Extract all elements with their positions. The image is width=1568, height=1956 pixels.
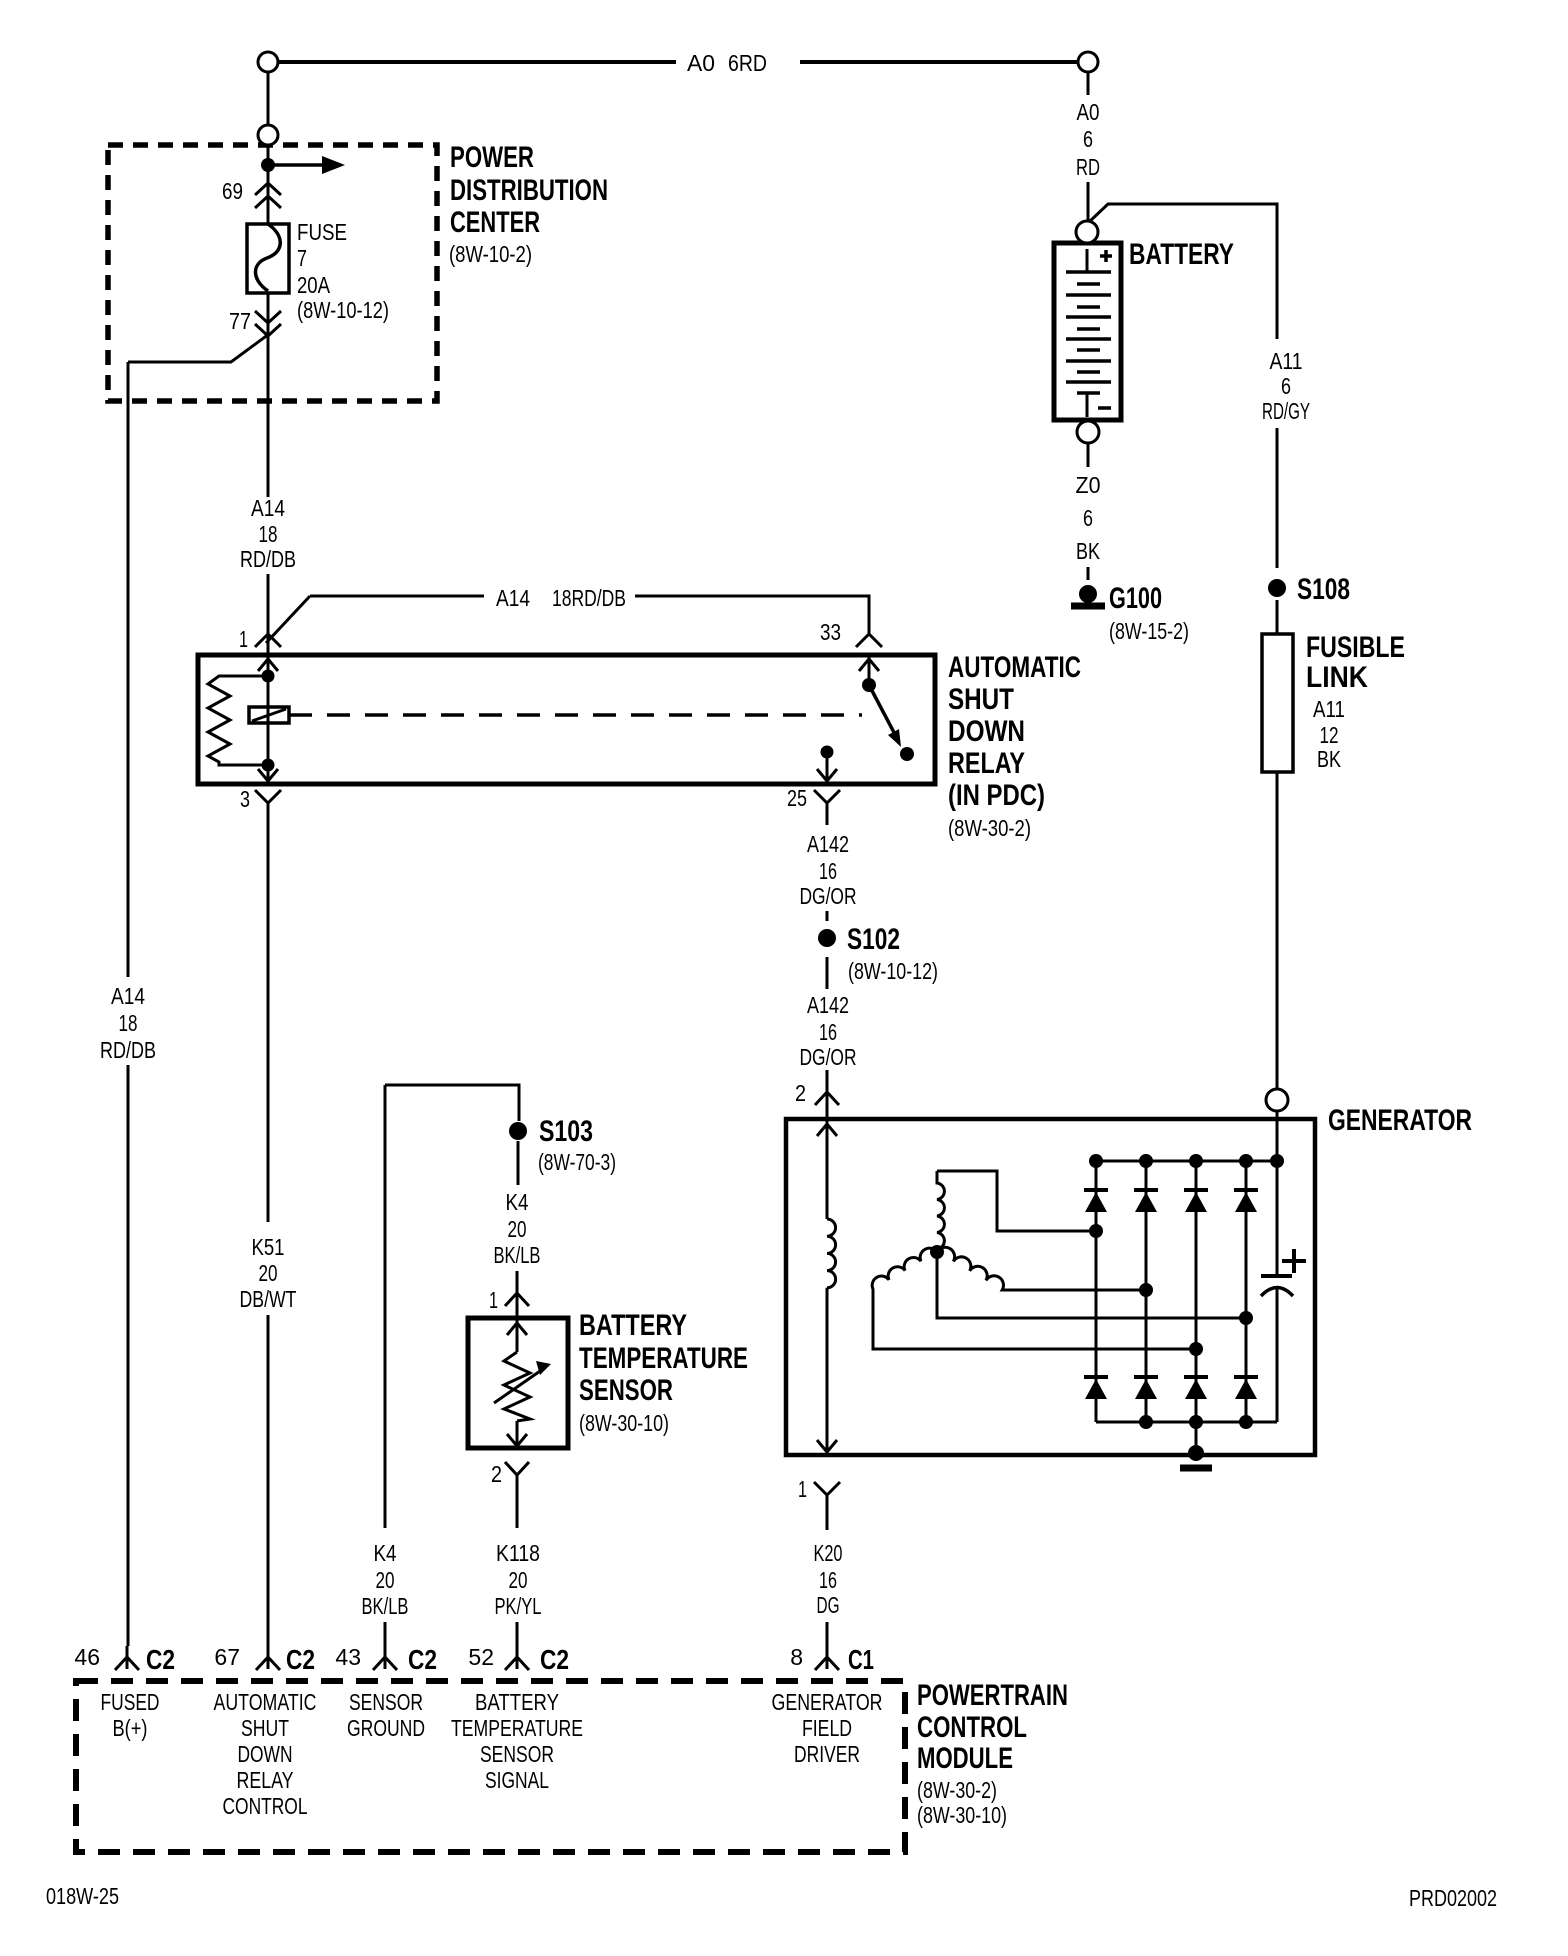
svg-text:8: 8 bbox=[790, 1644, 803, 1670]
wire A14 branch diagonal bbox=[266, 596, 310, 643]
svg-text:RELAY: RELAY bbox=[948, 747, 1025, 780]
svg-text:2: 2 bbox=[795, 1080, 806, 1106]
capacitor plus sign bbox=[1282, 1249, 1306, 1273]
svg-text:43: 43 bbox=[335, 1644, 361, 1670]
sensor internal top arrow bbox=[516, 1320, 519, 1352]
svg-text:PK/YL: PK/YL bbox=[495, 1593, 542, 1619]
svg-text:77: 77 bbox=[229, 308, 251, 334]
svg-text:18RD/DB: 18RD/DB bbox=[552, 585, 626, 611]
automatic shut down relay box bbox=[198, 655, 935, 784]
connector circle right on A0 wire bbox=[1078, 52, 1098, 72]
svg-text:3: 3 bbox=[240, 786, 250, 812]
stator phase tap dots bbox=[1089, 1224, 1103, 1238]
svg-text:BK: BK bbox=[1076, 538, 1101, 564]
svg-text:18: 18 bbox=[259, 521, 278, 547]
relay pin 33 chevron bbox=[856, 634, 882, 647]
diode bridge top bus bbox=[1096, 1160, 1277, 1163]
svg-text:BATTERY: BATTERY bbox=[1129, 238, 1234, 271]
svg-text:DG: DG bbox=[817, 1592, 840, 1618]
powertrain control module dashed box bbox=[76, 1681, 905, 1852]
svg-text:(8W-30-2): (8W-30-2) bbox=[948, 815, 1031, 841]
relay coil resistor bbox=[208, 676, 268, 765]
svg-text:6RD: 6RD bbox=[728, 50, 767, 76]
wire K4 left vertical upper bbox=[384, 1085, 387, 1528]
svg-text:GENERATOR: GENERATOR bbox=[772, 1689, 883, 1715]
diode bridge junction dots bottom bus bbox=[1139, 1415, 1153, 1429]
svg-text:POWER: POWER bbox=[450, 141, 534, 174]
svg-text:(8W-10-2): (8W-10-2) bbox=[449, 241, 532, 267]
wire to sensor pin 1 bbox=[516, 1271, 519, 1293]
wire below S102 bbox=[826, 957, 829, 989]
generator pin 1 internal arrow bbox=[817, 1440, 837, 1452]
relay pin 1 chevron bbox=[255, 634, 281, 647]
PCM pin 8 C1 chevron bbox=[815, 1646, 839, 1670]
svg-text:C2: C2 bbox=[146, 1644, 175, 1675]
relay coil symbol box bbox=[249, 707, 289, 723]
rectifier diode column 2 bbox=[1145, 1161, 1148, 1422]
svg-text:C1: C1 bbox=[848, 1644, 874, 1675]
wire A14 left upper segment bbox=[127, 362, 130, 977]
wire circle to circle bbox=[267, 73, 270, 124]
wire K20 lower segment bbox=[826, 1622, 829, 1646]
battery cell plates bbox=[1066, 270, 1111, 274]
wire fuse to switch node bbox=[267, 293, 270, 340]
sensor pin 1 chevron bbox=[505, 1293, 529, 1318]
svg-text:CENTER: CENTER bbox=[450, 206, 540, 239]
wire stub above S102 bbox=[826, 911, 829, 921]
svg-text:(8W-10-12): (8W-10-12) bbox=[848, 958, 938, 984]
svg-text:S108: S108 bbox=[1297, 573, 1350, 606]
svg-text:GROUND: GROUND bbox=[347, 1715, 425, 1741]
wire A14 center lower segment bbox=[267, 574, 270, 657]
svg-text:DRIVER: DRIVER bbox=[794, 1741, 860, 1767]
svg-text:BATTERY: BATTERY bbox=[475, 1689, 559, 1715]
relay switch blade bbox=[869, 685, 899, 742]
svg-text:CONTROL: CONTROL bbox=[223, 1793, 308, 1819]
arrow to other circuits bbox=[268, 163, 322, 167]
PCM pin 52 C2 chevron bbox=[505, 1646, 529, 1670]
svg-text:DOWN: DOWN bbox=[948, 715, 1025, 748]
svg-text:A11: A11 bbox=[1313, 696, 1345, 722]
svg-text:FUSE: FUSE bbox=[297, 219, 347, 245]
svg-text:RD/DB: RD/DB bbox=[100, 1037, 156, 1063]
svg-text:20: 20 bbox=[508, 1216, 527, 1242]
wire below S103 bbox=[517, 1141, 520, 1185]
wire K51 lower segment bbox=[267, 1315, 270, 1646]
wire K20 upper segment bbox=[826, 1512, 829, 1530]
svg-text:(8W-15-2): (8W-15-2) bbox=[1109, 618, 1189, 644]
splice S102 dot bbox=[818, 929, 836, 947]
generator rotor field wire upper bbox=[826, 1140, 829, 1219]
battery box bbox=[1054, 243, 1121, 420]
svg-text:C2: C2 bbox=[286, 1644, 315, 1675]
rectifier diode column 1 bbox=[1095, 1161, 1098, 1422]
svg-text:FUSED: FUSED bbox=[101, 1689, 160, 1715]
svg-text:LINK: LINK bbox=[1306, 661, 1368, 694]
svg-text:20: 20 bbox=[259, 1260, 278, 1286]
battery internal stem top bbox=[1086, 249, 1089, 272]
fusible link box bbox=[1262, 634, 1293, 772]
diode bridge bottom bus bbox=[1096, 1421, 1277, 1424]
svg-text:A14: A14 bbox=[496, 585, 530, 611]
svg-text:GENERATOR: GENERATOR bbox=[1328, 1104, 1472, 1137]
suppression capacitor bbox=[1261, 1274, 1292, 1278]
rectifier diode column 3 bbox=[1195, 1161, 1198, 1422]
svg-text:AUTOMATIC: AUTOMATIC bbox=[948, 651, 1081, 684]
wire Z0 lower segment bbox=[1087, 567, 1090, 580]
PCM pin 43 C2 chevron bbox=[373, 1646, 397, 1670]
svg-text:DB/WT: DB/WT bbox=[240, 1286, 297, 1312]
wire A0 to battery upper segment bbox=[1087, 73, 1090, 223]
svg-text:25: 25 bbox=[787, 785, 807, 811]
wire A0 6RD left segment bbox=[279, 60, 676, 64]
svg-text:DG/OR: DG/OR bbox=[800, 1044, 857, 1070]
svg-text:BK/LB: BK/LB bbox=[494, 1242, 541, 1268]
generator pin 1 chevron bbox=[814, 1482, 840, 1512]
pin 77 double chevron bbox=[255, 311, 281, 323]
svg-text:12: 12 bbox=[1320, 722, 1339, 748]
svg-text:BATTERY: BATTERY bbox=[579, 1309, 687, 1342]
svg-text:33: 33 bbox=[820, 619, 841, 645]
wire into PDC bbox=[267, 146, 270, 224]
svg-text:BK/LB: BK/LB bbox=[362, 1593, 409, 1619]
svg-text:7: 7 bbox=[297, 245, 307, 271]
svg-text:FUSIBLE: FUSIBLE bbox=[1306, 631, 1405, 664]
relay pin 1 internal arrow bbox=[267, 657, 270, 676]
svg-text:(8W-10-12): (8W-10-12) bbox=[297, 297, 389, 323]
svg-text:A14: A14 bbox=[251, 495, 285, 521]
svg-text:A14: A14 bbox=[111, 983, 145, 1009]
diode bridge junction dots top bus bbox=[1089, 1154, 1103, 1168]
sensor pin 2 chevron bbox=[505, 1462, 529, 1492]
connector circle at PDC entry bbox=[258, 125, 278, 145]
PCM pin 46 C2 chevron bbox=[115, 1646, 139, 1670]
splice S103 dot bbox=[509, 1122, 527, 1140]
svg-text:A142: A142 bbox=[807, 831, 849, 857]
generator pin 2 internal arrow bbox=[826, 1121, 829, 1140]
svg-text:(8W-70-3): (8W-70-3) bbox=[538, 1149, 616, 1175]
svg-text:K20: K20 bbox=[814, 1540, 843, 1566]
svg-text:AUTOMATIC: AUTOMATIC bbox=[214, 1689, 317, 1715]
svg-text:K4: K4 bbox=[374, 1540, 397, 1566]
splice S108 dot bbox=[1268, 579, 1286, 597]
ground G100 bbox=[1079, 585, 1097, 603]
svg-text:A0: A0 bbox=[1077, 99, 1100, 125]
svg-text:SENSOR: SENSOR bbox=[480, 1741, 554, 1767]
svg-text:A142: A142 bbox=[807, 992, 849, 1018]
wire A14 18RD/DB branch left segment bbox=[310, 595, 484, 598]
battery minus sign bbox=[1098, 406, 1111, 410]
svg-text:DOWN: DOWN bbox=[238, 1741, 293, 1767]
rectifier diode column 4 bbox=[1245, 1161, 1248, 1422]
svg-text:SHUT: SHUT bbox=[241, 1715, 289, 1741]
wire A14 center upper segment bbox=[267, 340, 270, 497]
wire A0 6RD right segment bbox=[800, 60, 1078, 64]
svg-text:46: 46 bbox=[74, 1644, 100, 1670]
svg-text:TEMPERATURE: TEMPERATURE bbox=[579, 1342, 748, 1375]
relay pin 25 internal dot and arrow bbox=[821, 746, 834, 759]
svg-text:CONTROL: CONTROL bbox=[917, 1711, 1027, 1744]
svg-text:RD: RD bbox=[1076, 154, 1100, 180]
svg-text:6: 6 bbox=[1083, 126, 1093, 152]
svg-text:K51: K51 bbox=[252, 1234, 285, 1260]
svg-text:RELAY: RELAY bbox=[237, 1767, 294, 1793]
stator feed L wire to diode column 1 bbox=[937, 1171, 1089, 1231]
svg-text:DG/OR: DG/OR bbox=[800, 883, 857, 909]
svg-text:K4: K4 bbox=[506, 1189, 529, 1215]
battery plus sign bbox=[1100, 250, 1112, 262]
relay pin 3 internal arrow bbox=[267, 765, 270, 781]
stator winding leg 1 bbox=[937, 1171, 944, 1252]
generator output terminal circle bbox=[1266, 1089, 1288, 1111]
svg-text:SENSOR: SENSOR bbox=[349, 1689, 423, 1715]
svg-text:6: 6 bbox=[1083, 505, 1093, 531]
relay switch fixed contact dot bbox=[862, 678, 876, 692]
battery negative terminal circle bbox=[1077, 421, 1099, 443]
svg-text:(8W-30-10): (8W-30-10) bbox=[579, 1410, 669, 1436]
svg-text:67: 67 bbox=[214, 1644, 240, 1670]
relay coil top junction dot bbox=[262, 670, 275, 683]
svg-text:Z0: Z0 bbox=[1076, 472, 1101, 498]
generator box bbox=[786, 1119, 1315, 1455]
svg-text:BK: BK bbox=[1317, 746, 1342, 772]
power distribution center dashed box bbox=[108, 145, 437, 401]
svg-text:C2: C2 bbox=[408, 1644, 437, 1675]
wire A14 18RD/DB branch right segment bbox=[635, 596, 869, 634]
svg-text:(8W-30-10): (8W-30-10) bbox=[917, 1802, 1007, 1828]
svg-text:SIGNAL: SIGNAL bbox=[485, 1767, 549, 1793]
wire battery positive branch bbox=[1088, 204, 1277, 339]
svg-text:B(+): B(+) bbox=[113, 1715, 148, 1741]
sensor variable arrow bbox=[494, 1369, 543, 1403]
svg-text:(IN PDC): (IN PDC) bbox=[948, 779, 1045, 812]
svg-text:POWERTRAIN: POWERTRAIN bbox=[917, 1679, 1068, 1712]
generator pin 2 chevron bbox=[815, 1092, 839, 1119]
relay switch moving contact dot bbox=[900, 747, 914, 761]
sensor thermistor zigzag bbox=[504, 1352, 530, 1421]
svg-text:SHUT: SHUT bbox=[948, 683, 1014, 716]
relay actuation dashed link bbox=[289, 713, 862, 717]
relay pin 3 chevron bbox=[255, 790, 281, 815]
battery internal stem bottom bbox=[1086, 393, 1089, 417]
svg-text:MODULE: MODULE bbox=[917, 1742, 1013, 1775]
svg-text:69: 69 bbox=[222, 178, 243, 204]
svg-text:2: 2 bbox=[491, 1461, 502, 1487]
relay pin 33 internal arrow bbox=[868, 657, 871, 685]
svg-text:DISTRIBUTION: DISTRIBUTION bbox=[450, 174, 608, 207]
svg-text:FIELD: FIELD bbox=[802, 1715, 852, 1741]
svg-text:18: 18 bbox=[119, 1010, 138, 1036]
svg-text:6: 6 bbox=[1281, 373, 1291, 399]
sensor internal bottom arrow bbox=[516, 1421, 519, 1446]
svg-text:SENSOR: SENSOR bbox=[579, 1374, 673, 1407]
svg-text:RD/DB: RD/DB bbox=[240, 546, 296, 572]
battery positive terminal circle bbox=[1076, 221, 1098, 243]
svg-text:S102: S102 bbox=[847, 923, 900, 956]
junction dot with arrow bbox=[261, 158, 275, 172]
svg-text:018W-25: 018W-25 bbox=[46, 1883, 119, 1909]
svg-text:PRD02002: PRD02002 bbox=[1409, 1885, 1497, 1911]
svg-text:K118: K118 bbox=[496, 1540, 540, 1566]
wire K51 upper segment bbox=[267, 815, 270, 1222]
svg-text:TEMPERATURE: TEMPERATURE bbox=[451, 1715, 583, 1741]
svg-text:A11: A11 bbox=[1270, 348, 1303, 374]
connector circle left on A0 wire bbox=[258, 52, 278, 72]
svg-text:20A: 20A bbox=[297, 272, 331, 298]
svg-text:16: 16 bbox=[819, 1567, 837, 1593]
svg-text:1: 1 bbox=[489, 1287, 498, 1313]
wire S108 to fusible link bbox=[1276, 600, 1279, 634]
svg-text:1: 1 bbox=[798, 1476, 807, 1502]
svg-text:52: 52 bbox=[468, 1644, 494, 1670]
svg-text:20: 20 bbox=[509, 1567, 528, 1593]
svg-text:S103: S103 bbox=[539, 1115, 593, 1148]
svg-text:A0: A0 bbox=[687, 50, 715, 76]
svg-text:C2: C2 bbox=[540, 1644, 569, 1675]
wire to generator pin 2 bbox=[826, 1070, 829, 1092]
stator star junction dot bbox=[930, 1245, 944, 1259]
generator internal ground bbox=[1195, 1422, 1198, 1452]
stator center tap wire bbox=[937, 1252, 1246, 1318]
svg-text:RD/GY: RD/GY bbox=[1262, 398, 1310, 424]
svg-text:1: 1 bbox=[239, 626, 248, 652]
wire K118 upper segment bbox=[516, 1492, 519, 1528]
battery temperature sensor box bbox=[468, 1318, 568, 1448]
relay switch blade in PDC bbox=[128, 334, 269, 362]
svg-text:(8W-30-2): (8W-30-2) bbox=[917, 1777, 997, 1803]
PCM pin 67 C2 chevron bbox=[256, 1646, 280, 1670]
svg-text:16: 16 bbox=[819, 1019, 837, 1045]
wire K4 left lower segment bbox=[384, 1622, 387, 1646]
generator rotor field coil bbox=[827, 1219, 836, 1288]
wire Z0 upper segment bbox=[1087, 443, 1090, 467]
svg-text:16: 16 bbox=[819, 858, 837, 884]
relay coil vertical wire bbox=[267, 676, 270, 765]
relay pin 25 chevron bbox=[814, 790, 840, 825]
generator output wire with capacitor bbox=[1276, 1111, 1279, 1422]
stator winding leg 2 bbox=[872, 1248, 1196, 1349]
wire A14 left lower segment bbox=[127, 1065, 130, 1646]
svg-text:20: 20 bbox=[376, 1567, 395, 1593]
svg-text:G100: G100 bbox=[1109, 582, 1162, 615]
wire A11 middle segment bbox=[1276, 428, 1279, 568]
wire K118 lower segment bbox=[516, 1622, 519, 1646]
relay coil bottom junction dot bbox=[262, 759, 275, 772]
generator rotor field wire lower bbox=[826, 1288, 829, 1453]
pin 69 double chevron bbox=[255, 183, 281, 195]
wire K4 bridge bbox=[385, 1085, 519, 1121]
wire fusible link to generator bbox=[1276, 772, 1279, 1089]
stator winding leg 3 bbox=[937, 1247, 1146, 1290]
fuse 7 20A bbox=[247, 224, 289, 293]
